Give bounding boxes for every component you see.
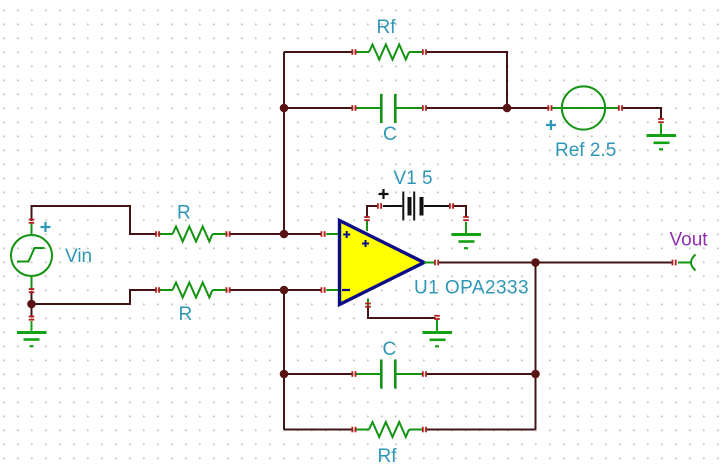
svg-text:Vin: Vin	[65, 246, 92, 267]
pin tick C bottom left	[351, 371, 356, 377]
resistor R1	[158, 227, 227, 242]
resistor Rf top	[355, 45, 423, 60]
svg-text:R: R	[179, 304, 193, 325]
svg-text:Ref 2.5: Ref 2.5	[555, 140, 616, 161]
wire top Rf left	[284, 51, 353, 53]
pin tick C top left	[351, 105, 356, 111]
wire bottom C left	[284, 373, 353, 375]
voltage source Ref 2.5	[552, 86, 619, 129]
wire top Rf right	[426, 52, 508, 108]
battery V1	[383, 192, 450, 221]
wire Ref source to ground	[622, 108, 662, 120]
wire R1 right to opamp +in	[229, 233, 322, 235]
wire opamp V- to ground	[368, 306, 436, 318]
svg-text:V1 5: V1 5	[394, 168, 433, 189]
opamp -in pin	[327, 289, 339, 291]
pin tick ground V-	[434, 315, 440, 320]
pin tick R2 right	[226, 287, 231, 293]
pin tick Ref right	[618, 105, 623, 111]
junction node left rail top C	[280, 104, 289, 113]
pin tick Vin bottom	[29, 288, 35, 293]
pin tick Rf top right	[422, 49, 427, 55]
svg-text:Rf: Rf	[377, 17, 397, 38]
pin tick ground battery	[463, 216, 469, 221]
pin tick Vin top	[29, 219, 35, 224]
wire battery right to ground	[453, 206, 466, 218]
pin tick C top right	[422, 105, 427, 111]
opamp plus power marker	[362, 240, 369, 247]
junction node left rail -in	[280, 286, 289, 295]
pin tick Ref left	[547, 105, 552, 111]
opamp V+ pin	[366, 221, 368, 232]
junction node left rail +in	[280, 230, 289, 239]
ground below opamp V-	[423, 320, 453, 346]
plus sign of battery	[379, 189, 389, 199]
svg-text:C: C	[383, 124, 397, 145]
svg-text:U1 OPA2333: U1 OPA2333	[414, 278, 529, 299]
pin tick R1 right	[226, 231, 231, 237]
resistor Rf bottom	[355, 422, 423, 437]
wire Vin- node to R2 left	[32, 290, 157, 304]
pin tick Rf bottom right	[422, 427, 427, 433]
wire left upper rail	[283, 52, 285, 234]
resistor R2	[158, 283, 227, 298]
pin tick R2 left	[155, 287, 160, 293]
pin tick battery right	[449, 203, 454, 209]
opamp plus input marker	[343, 231, 350, 238]
wire bottom Rf right	[426, 429, 536, 431]
svg-text:Rf: Rf	[378, 446, 398, 467]
pin tick Vout	[672, 260, 677, 266]
pin tick opamp -in	[321, 287, 326, 293]
wire opamp V+ to battery left	[367, 206, 379, 218]
capacitor C bottom	[355, 360, 423, 389]
svg-text:C: C	[383, 339, 397, 360]
pin tick opamp +in	[321, 231, 326, 237]
opamp +in pin	[327, 233, 339, 235]
pin tick Rf bottom left	[351, 427, 356, 433]
output terminal Vout	[678, 255, 696, 271]
opamp minus input marker	[342, 289, 350, 291]
wire R2 right to opamp -in	[229, 289, 322, 291]
pin tick Rf top left	[351, 49, 356, 55]
pin tick R1 left	[155, 231, 160, 237]
wire opamp output to Vout	[438, 262, 673, 264]
plus sign of Ref	[546, 120, 556, 130]
pin tick battery left	[377, 203, 382, 209]
wire bottom Rf left	[284, 429, 353, 431]
wire top C left	[284, 107, 353, 109]
junction node Vin-	[27, 300, 36, 309]
pin tick C bottom right	[422, 371, 427, 377]
op-amp U1	[340, 221, 425, 305]
voltage source Vin	[11, 223, 52, 291]
ground below Ref	[647, 124, 677, 150]
junction node output	[531, 258, 540, 267]
capacitor C top	[355, 94, 423, 123]
pin tick opamp V-	[365, 303, 371, 308]
wire Vin+ to R1 left	[32, 206, 157, 234]
junction node bottom C right	[531, 370, 540, 379]
junction node left rail bottom C	[280, 370, 289, 379]
opamp V- pin	[367, 299, 369, 308]
wire top C right	[426, 107, 508, 109]
svg-text:Vout: Vout	[670, 229, 709, 250]
svg-text:R: R	[177, 202, 191, 223]
wire node to Ref source	[507, 107, 549, 109]
wire Vin- down to ground node	[31, 291, 33, 317]
pin tick opamp out	[434, 260, 439, 266]
plus sign of Vin	[41, 222, 51, 232]
ground below battery	[452, 222, 482, 248]
wire bottom C right	[426, 373, 536, 375]
pin tick ground Ref	[658, 118, 664, 123]
ground below Vin	[17, 321, 47, 346]
pin tick ground Vin	[29, 316, 35, 321]
pin tick opamp V+	[364, 216, 370, 221]
wire left lower rail	[283, 290, 285, 430]
junction node top C right	[503, 104, 512, 113]
wire right vertical rail	[535, 263, 537, 430]
opamp output pin	[424, 262, 435, 264]
